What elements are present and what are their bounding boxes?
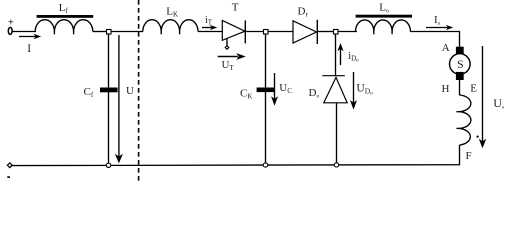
terminal minus output (7, 163, 12, 168)
svg-text:iDo: iDo (348, 51, 359, 64)
svg-text:Lf: Lf (59, 2, 69, 15)
svg-text:A: A (442, 42, 450, 54)
node A2 (264, 30, 269, 35)
wire diode Do branch upper (335, 34, 337, 76)
thyristor gate lead (226, 38, 228, 45)
svg-text:U: U (126, 85, 134, 97)
dashed separator line (138, 0, 140, 184)
diode Dr cathode bar (316, 20, 318, 44)
diode Do cathode bar (322, 75, 345, 77)
svg-text:UT: UT (222, 59, 235, 72)
svg-text:S: S (457, 57, 464, 71)
motor brush top (456, 47, 464, 56)
node bottom Do (334, 163, 339, 167)
svg-text:E: E (470, 83, 477, 95)
wire field winding to bottom rail (11, 145, 460, 166)
svg-text:F: F (466, 150, 472, 162)
current arrow iDo (337, 43, 343, 65)
terminal plus input (8, 27, 12, 34)
thyristor T cathode bar (244, 20, 246, 43)
node bottom Ck (263, 163, 268, 167)
inductor Lo cusp ticks (374, 31, 392, 34)
wire node A1 to Lk (111, 31, 143, 33)
svg-text:Cf: Cf (84, 86, 94, 99)
motor brush bottom (456, 72, 464, 80)
svg-text:iT: iT (205, 15, 213, 27)
svg-text:I: I (27, 43, 31, 55)
svg-text:Lo: Lo (379, 1, 389, 14)
svg-text:Us: Us (493, 96, 504, 111)
svg-text:H: H (442, 83, 450, 95)
voltage arrow UT (218, 53, 246, 60)
svg-text:Dr: Dr (298, 5, 309, 18)
wire input to Lf (12, 31, 36, 33)
wire diode Do branch lower (336, 103, 338, 165)
svg-text:Do: Do (309, 87, 320, 100)
current arrow I (19, 34, 41, 39)
inductor Lo (356, 20, 411, 32)
wire Dr to node A3 (317, 31, 333, 33)
svg-text:T: T (232, 2, 239, 14)
inductor Lf cusp ticks (54, 31, 73, 34)
field winding coil (460, 95, 471, 145)
voltage arrow U (115, 35, 123, 163)
wire Lf to node A1 (93, 31, 107, 33)
thyristor gate diamond (225, 46, 229, 50)
voltage arrow UC (271, 73, 278, 106)
inductor Lf core bar (37, 15, 94, 18)
node A1 (107, 30, 112, 35)
wire thyristor to node A2 (245, 31, 263, 33)
wire capacitor Ck branch (265, 34, 267, 165)
inductor Lo core bar (356, 15, 412, 18)
label minus (7, 176, 10, 178)
wire Lo to motor corner (410, 32, 459, 47)
voltage arrow UDo (350, 72, 357, 110)
wire node A2 to diode Dr (268, 31, 294, 33)
wire capacitor Cf branch (108, 34, 110, 165)
node bottom Cf (106, 163, 111, 167)
diode Dr triangle (293, 21, 317, 43)
capacitor Ck plate (257, 88, 275, 93)
svg-text:CK: CK (240, 88, 252, 101)
current arrow iT (202, 25, 217, 30)
thyristor T triangle (222, 20, 245, 40)
wire Lk to thyristor (198, 31, 222, 33)
inductor Lk (143, 20, 198, 32)
svg-text:UDo: UDo (356, 83, 373, 97)
motor armature circle (450, 54, 471, 75)
wire motor to field winding (459, 80, 461, 95)
stray dot (477, 136, 479, 138)
inductor Lk cusp ticks (161, 31, 179, 34)
svg-text:Ia: Ia (434, 14, 441, 27)
voltage arrow Us (479, 46, 486, 148)
svg-text:+: + (8, 18, 14, 29)
capacitor Cf plate (100, 88, 118, 93)
current arrow Ia (426, 25, 453, 30)
node A3 (334, 30, 339, 35)
diode Do triangle (324, 77, 347, 102)
wire node A3 to Lo (338, 31, 357, 33)
field winding cusp ticks (456, 112, 460, 129)
svg-text:UC: UC (279, 82, 292, 95)
svg-text:LK: LK (166, 5, 178, 18)
inductor Lf (35, 20, 93, 32)
